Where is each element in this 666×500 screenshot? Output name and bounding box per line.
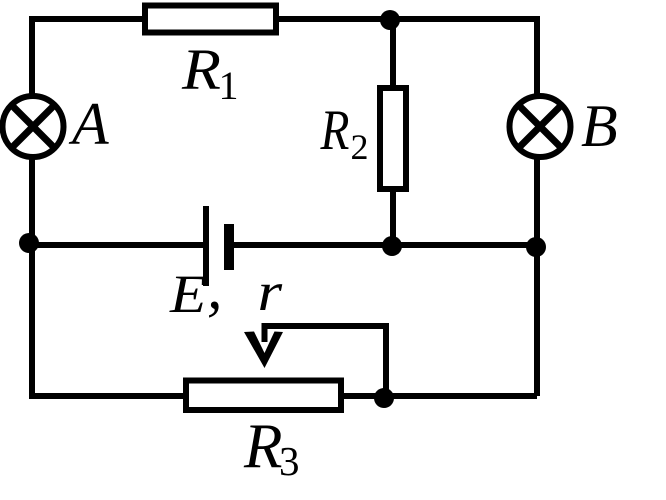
svg-text:r: r [258,261,284,322]
svg-text:E: E [169,264,206,324]
svg-text:B: B [581,93,618,159]
svg-text:R: R [243,412,282,482]
svg-text:1: 1 [219,63,239,108]
svg-text:R: R [320,99,350,162]
svg-text:,: , [207,254,223,322]
svg-text:R: R [181,39,221,103]
svg-text:2: 2 [351,127,369,167]
svg-text:A: A [68,91,109,157]
svg-text:3: 3 [279,438,300,484]
